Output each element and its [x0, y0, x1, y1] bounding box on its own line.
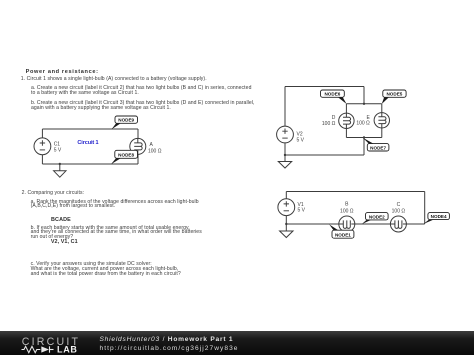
svg-text:5 V: 5 V — [54, 148, 62, 154]
lamp E — [374, 113, 389, 128]
junction dot circuit2 ground — [285, 223, 287, 225]
wire circuit2 source top stub — [285, 192, 287, 199]
label V2 value — [297, 131, 305, 143]
svg-text:http://circuitlab.com/cg36jj27: http://circuitlab.com/cg36jj27wy83e — [100, 345, 239, 352]
problem text — [26, 70, 99, 75]
node NODE6 — [321, 90, 347, 104]
svg-text:LAB: LAB — [57, 344, 78, 354]
wire lamp E top stub — [381, 104, 383, 113]
svg-text:5 V: 5 V — [297, 137, 305, 143]
junction dot circuit3 bottom bus — [363, 136, 365, 138]
wire circuit1 top — [42, 128, 138, 130]
wire lamp E bottom stub — [381, 128, 383, 138]
svg-text:100 Ω: 100 Ω — [340, 208, 354, 214]
label C1 value — [54, 142, 62, 154]
node NODE2 — [362, 213, 388, 224]
wire circuit3 top — [285, 86, 364, 88]
label lamp C value — [392, 202, 406, 214]
svg-text:NODE7: NODE7 — [370, 145, 386, 150]
node NODE5 — [382, 90, 406, 104]
lamp C — [390, 216, 407, 232]
wire circuit2 middle centre — [355, 223, 391, 225]
node NODE1 — [329, 224, 354, 238]
node NODE9 — [112, 116, 138, 129]
label lamp B value — [340, 202, 354, 215]
label lamp E value — [356, 115, 370, 127]
wire circuit1 left vertical top — [41, 129, 43, 138]
junction dot circuit1 ground — [59, 163, 61, 165]
wire circuit2 source bottom stub — [285, 216, 287, 224]
svg-text:NODE5: NODE5 — [386, 92, 402, 97]
svg-text:100 Ω: 100 Ω — [356, 121, 370, 127]
wire circuit3 return — [285, 154, 364, 156]
wire circuit1 bottom — [42, 163, 138, 165]
wire circuit3 source bottom stub — [284, 143, 286, 155]
svg-text:A: A — [150, 142, 154, 148]
svg-text:ShieldsHunter03 / Homework Par: ShieldsHunter03 / Homework Part 1 — [100, 336, 234, 343]
wire circuit2 middle left — [286, 223, 339, 225]
wire circuit3 bottom bus — [346, 137, 381, 139]
svg-text:NODE4: NODE4 — [431, 214, 447, 219]
svg-text:Circuit 1: Circuit 1 — [77, 140, 98, 146]
ground circuit1 — [54, 164, 66, 177]
voltage source V1 — [278, 199, 295, 216]
voltage source C1 — [34, 138, 51, 155]
node NODE7 — [363, 138, 389, 151]
wire circuit3 feed drop — [363, 87, 365, 104]
svg-text:100 Ω: 100 Ω — [148, 148, 162, 154]
wire circuit1 left vertical bottom — [41, 155, 43, 164]
label V1 value — [298, 202, 306, 213]
wire lamp D bottom stub — [345, 129, 347, 138]
wire circuit1 right vertical top — [137, 129, 139, 139]
lamp B — [339, 216, 356, 232]
lamp D — [339, 113, 354, 128]
svg-text:100 Ω: 100 Ω — [392, 208, 406, 214]
wire circuit3 left vertical — [284, 87, 286, 127]
svg-text:NODE8: NODE8 — [118, 153, 134, 158]
svg-text:NODE1: NODE1 — [335, 233, 351, 238]
ground circuit2 — [280, 224, 293, 238]
wire circuit1 right vertical bottom — [137, 154, 139, 164]
junction dot circuit3 top bus — [363, 103, 365, 105]
svg-text:100 Ω: 100 Ω — [322, 121, 336, 127]
svg-text:B: B — [345, 202, 349, 208]
ground circuit3 — [278, 155, 291, 168]
lamp A — [130, 138, 146, 154]
label lamp A value — [148, 142, 162, 154]
svg-text:5 V: 5 V — [298, 208, 306, 214]
svg-text:C: C — [397, 202, 401, 208]
wire circuit3 return drop — [363, 138, 365, 156]
svg-text:NODE9: NODE9 — [118, 118, 134, 123]
voltage source V2 — [277, 126, 294, 143]
footer bar — [0, 331, 474, 355]
node NODE4 — [424, 213, 450, 224]
svg-text:NODE2: NODE2 — [369, 214, 385, 219]
wire circuit3 top bus — [346, 103, 381, 105]
wire circuit2 middle right — [406, 223, 424, 225]
wire lamp D top stub — [345, 104, 347, 113]
wire circuit2 top — [286, 191, 424, 193]
label lamp D value — [322, 115, 336, 127]
wire circuit2 right vertical — [424, 192, 426, 225]
svg-text:NODE6: NODE6 — [324, 92, 340, 97]
node NODE8 — [111, 150, 138, 164]
label Circuit 1 — [77, 140, 98, 146]
junction dot circuit3 ground — [284, 154, 286, 156]
